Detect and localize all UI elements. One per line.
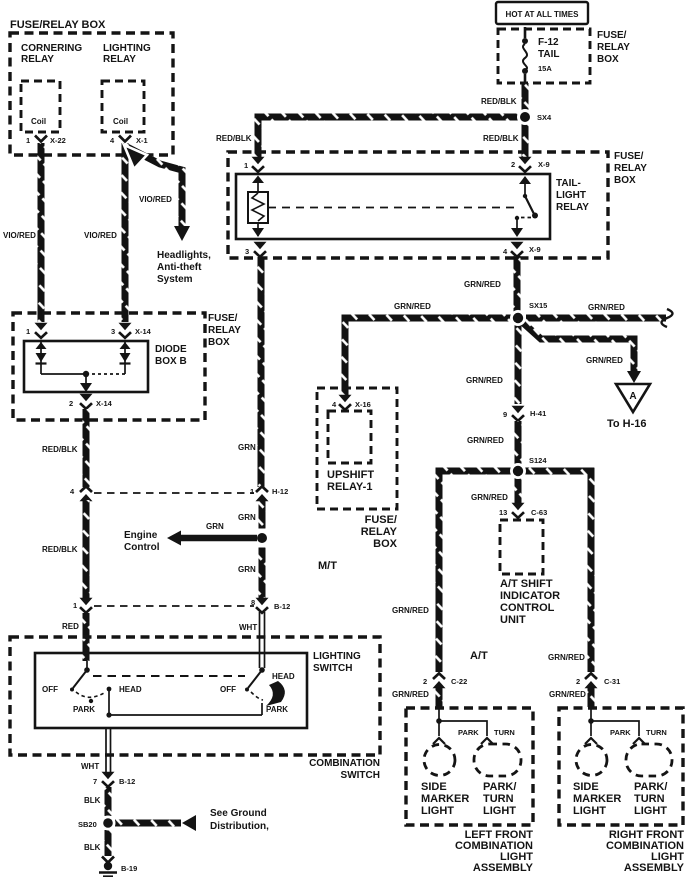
svg-text:GRN/RED: GRN/RED: [392, 606, 429, 615]
left front combination light assembly dashed box: [406, 708, 533, 825]
wire GRN/RED from S124 right to C-31: [524, 471, 591, 672]
connector A (to H-16): [616, 384, 650, 412]
wire GRN/RED from SX15 to upshift relay-1: [345, 318, 511, 398]
wire RED/BLK from fuse to SX4: [522, 83, 529, 111]
park/turn light (right): [626, 744, 672, 776]
lamp terminals (right assembly): [585, 738, 597, 744]
wire RED/BLK from SX4 to tail-light relay pin 2: [522, 124, 529, 158]
svg-text:C-22: C-22: [451, 677, 467, 686]
wire GRN from relay pin 3 to H-12 pin 1: [258, 257, 265, 487]
svg-text:7: 7: [93, 777, 97, 786]
svg-text:RED/BLK: RED/BLK: [42, 545, 78, 554]
connector B-12 pin 8: [256, 598, 269, 613]
relay switch: [519, 176, 531, 184]
svg-text:RELAY: RELAY: [614, 163, 647, 174]
svg-text:To H-16: To H-16: [607, 418, 647, 430]
fuse/relay box dashed enclosure (tail-light relay): [228, 152, 608, 258]
wire BLK from SB20 to ground G B-19: [105, 830, 112, 856]
svg-text:H-12: H-12: [272, 487, 288, 496]
right switch HEAD position arrow (thick): [266, 681, 285, 706]
svg-text:UNIT: UNIT: [500, 614, 526, 626]
left switch travel arc through PARK: [76, 692, 104, 697]
wire GRN/RED from relay pin 4 to SX15: [514, 256, 521, 312]
connector H-12 pin 1: [256, 486, 269, 501]
arrow down to pin 2: [85, 374, 87, 385]
switch output bus: [109, 689, 262, 715]
svg-text:X-16: X-16: [355, 400, 371, 409]
svg-text:3: 3: [245, 247, 249, 256]
svg-text:F-12: F-12: [538, 37, 559, 48]
svg-text:ASSEMBLY: ASSEMBLY: [473, 862, 534, 874]
wire GRN from tap to B-12 pin 8: [259, 545, 266, 600]
svg-text:SX15: SX15: [529, 301, 547, 310]
svg-text:DIODE: DIODE: [155, 344, 187, 355]
svg-text:SWITCH: SWITCH: [341, 770, 380, 781]
wire GRN/RED from C-31 into right assembly: [588, 687, 595, 707]
wire VIO/RED branch to headlights / anti-theft: [127, 147, 182, 227]
svg-text:BLK: BLK: [84, 796, 101, 805]
fuse/relay box dashed enclosure (cornering/lighting relays): [10, 33, 173, 155]
svg-text:A/T: A/T: [470, 650, 488, 662]
svg-text:Headlights,: Headlights,: [157, 250, 211, 261]
svg-text:RED/BLK: RED/BLK: [481, 97, 517, 106]
svg-text:TURN: TURN: [634, 793, 665, 805]
svg-text:GRN: GRN: [238, 443, 256, 452]
connector C-31 pin 2: [585, 673, 598, 688]
connector H-41 pin 9: [512, 406, 525, 421]
svg-text:LIGHT: LIGHT: [556, 190, 586, 201]
svg-text:B-19: B-19: [121, 864, 137, 873]
svg-text:B-12: B-12: [274, 602, 290, 611]
svg-text:System: System: [157, 274, 193, 285]
svg-text:TAIL-: TAIL-: [556, 178, 581, 189]
svg-text:LIGHT: LIGHT: [421, 805, 454, 817]
svg-text:2: 2: [69, 399, 73, 408]
a/t shift indicator control unit dashed box: [500, 520, 543, 574]
left assembly internal wiring: [438, 708, 440, 736]
fuse/relay box dashed enclosure (upshift relay-1): [317, 388, 397, 509]
svg-text:RELAY-1: RELAY-1: [327, 481, 372, 493]
svg-text:LIGHTING: LIGHTING: [103, 43, 151, 54]
svg-text:FUSE/: FUSE/: [365, 514, 397, 526]
wire GRN/RED from S124 left to C-22: [439, 471, 512, 672]
wire RED into lighting switch: [83, 613, 90, 661]
diode D2 (right): [124, 341, 126, 374]
fuse box dashed enclosure: [498, 29, 590, 83]
svg-text:VIO/RED: VIO/RED: [84, 231, 117, 240]
svg-text:LIGHT: LIGHT: [634, 805, 667, 817]
svg-text:RELAY: RELAY: [597, 42, 630, 53]
connector X-16 pin 4 (upshift relay): [339, 395, 352, 410]
svg-text:SIDE: SIDE: [421, 781, 447, 793]
svg-text:LIGHT: LIGHT: [573, 805, 606, 817]
svg-text:BOX: BOX: [373, 538, 398, 550]
svg-text:1: 1: [26, 327, 30, 336]
svg-text:See Ground: See Ground: [210, 808, 267, 819]
svg-text:RED/BLK: RED/BLK: [483, 134, 519, 143]
svg-text:PARK/: PARK/: [483, 781, 516, 793]
svg-text:TURN: TURN: [646, 728, 667, 737]
diode output bus: [41, 373, 86, 375]
svg-text:BOX: BOX: [208, 337, 230, 348]
connector B-12 pin 7: [102, 772, 115, 787]
svg-text:BOX: BOX: [597, 54, 619, 65]
svg-text:15A: 15A: [538, 64, 552, 73]
svg-text:GRN/RED: GRN/RED: [392, 690, 429, 699]
svg-text:TURN: TURN: [483, 793, 514, 805]
cornering relay coil box: [21, 81, 60, 132]
svg-text:M/T: M/T: [318, 560, 337, 572]
svg-text:X-14: X-14: [96, 399, 113, 408]
svg-text:C-31: C-31: [604, 677, 620, 686]
wire WHT (double line) from switch output to B-12 pin 7: [106, 728, 111, 772]
wire BLK from B-12 pin 7 to SB20: [105, 787, 112, 816]
right switch pole: [259, 667, 265, 673]
pin 1 (diode box): [35, 323, 48, 338]
junction SX15: [510, 310, 526, 326]
fuse F-12 TAIL 15A: [524, 27, 527, 38]
svg-text:Coil: Coil: [113, 117, 128, 126]
svg-text:Control: Control: [124, 542, 160, 553]
right assembly internal wiring: [590, 708, 592, 736]
continuation squiggle: [662, 309, 673, 327]
svg-text:HEAD: HEAD: [272, 672, 295, 681]
svg-text:S124: S124: [529, 456, 547, 465]
arrowhead into connector A: [627, 371, 641, 383]
svg-text:C-63: C-63: [531, 508, 547, 517]
svg-text:CONTROL: CONTROL: [500, 602, 555, 614]
svg-text:GRN/RED: GRN/RED: [549, 690, 586, 699]
svg-text:COMBINATION: COMBINATION: [309, 758, 380, 769]
svg-text:GRN/RED: GRN/RED: [588, 303, 625, 312]
svg-text:HEAD: HEAD: [119, 685, 142, 694]
wire RED/BLK branch from SX4 to tail-light relay pin 1: [258, 117, 518, 158]
svg-text:Distribution,: Distribution,: [210, 821, 269, 832]
wire GRN/RED from S124 to C-63: [515, 478, 522, 504]
svg-text:FUSE/: FUSE/: [614, 151, 644, 162]
svg-text:X-9: X-9: [529, 245, 541, 254]
svg-text:A/T SHIFT: A/T SHIFT: [500, 578, 553, 590]
svg-text:WHT: WHT: [81, 762, 99, 771]
arrowhead (to ground distribution): [182, 815, 196, 831]
left switch blade to OFF: [73, 670, 87, 688]
pin 4 X-9 (relay switch, bottom): [511, 242, 524, 257]
relay coil: [252, 176, 264, 184]
coil-switch mechanical dashed link: [268, 207, 516, 209]
svg-text:VIO/RED: VIO/RED: [139, 195, 172, 204]
svg-text:SIDE: SIDE: [573, 781, 599, 793]
svg-text:2: 2: [511, 160, 515, 169]
tail-light relay solid box: [236, 174, 550, 239]
svg-text:MARKER: MARKER: [421, 793, 469, 805]
svg-text:1: 1: [26, 136, 30, 145]
side marker light (left): [424, 745, 455, 776]
side marker light (right): [576, 745, 607, 776]
junction S124: [510, 463, 526, 479]
svg-text:RELAY: RELAY: [208, 325, 241, 336]
svg-text:9: 9: [503, 410, 507, 419]
svg-text:RED/BLK: RED/BLK: [42, 445, 78, 454]
svg-text:GRN: GRN: [238, 565, 256, 574]
svg-text:FUSE/: FUSE/: [208, 313, 238, 324]
svg-text:SB20: SB20: [78, 820, 97, 829]
pin 1 (relay coil, top): [252, 157, 265, 172]
svg-text:GRN/RED: GRN/RED: [471, 493, 508, 502]
svg-text:Coil: Coil: [31, 117, 46, 126]
svg-text:OFF: OFF: [42, 685, 58, 694]
diode box B solid box: [24, 341, 148, 392]
wire GRN/RED from C-22 into left assembly: [436, 687, 443, 707]
dashed link H-12 connector: [94, 492, 254, 494]
svg-text:TURN: TURN: [494, 728, 515, 737]
svg-text:PARK: PARK: [610, 728, 631, 737]
svg-text:PARK: PARK: [266, 705, 288, 714]
svg-text:GRN/RED: GRN/RED: [394, 302, 431, 311]
lighting relay coil box: [102, 81, 144, 132]
svg-text:WHT: WHT: [239, 623, 257, 632]
wire to ground distribution: [115, 820, 181, 827]
svg-text:8: 8: [251, 598, 255, 607]
svg-text:BLK: BLK: [84, 843, 101, 852]
svg-text:GRN: GRN: [238, 513, 256, 522]
svg-text:X-14: X-14: [135, 327, 152, 336]
svg-text:1: 1: [73, 601, 77, 610]
pin 1 X-22 (cornering relay coil): [35, 136, 47, 142]
pin 3 (relay coil, bottom): [254, 242, 267, 257]
arrowhead down to headlights system: [174, 226, 190, 241]
svg-text:GRN/RED: GRN/RED: [586, 356, 623, 365]
svg-text:RELAY: RELAY: [361, 526, 398, 538]
svg-text:RELAY: RELAY: [21, 54, 54, 65]
junction (engine control tap): [257, 529, 267, 548]
svg-text:RELAY: RELAY: [103, 54, 136, 65]
svg-text:UPSHIFT: UPSHIFT: [327, 469, 374, 481]
svg-text:GRN/RED: GRN/RED: [467, 436, 504, 445]
svg-text:H-41: H-41: [530, 409, 546, 418]
svg-text:PARK/: PARK/: [634, 781, 667, 793]
pin 2 X-14 (diode box): [80, 394, 93, 409]
svg-text:FUSE/: FUSE/: [597, 30, 627, 41]
svg-text:B-12: B-12: [119, 777, 135, 786]
upshift relay-1 inner dashed box: [328, 411, 371, 463]
wire GRN/RED from H-41 to S124: [515, 421, 522, 464]
svg-text:HOT AT ALL TIMES: HOT AT ALL TIMES: [506, 10, 580, 19]
junction (diode outputs): [83, 371, 89, 377]
svg-text:BOX: BOX: [614, 175, 636, 186]
svg-text:VIO/RED: VIO/RED: [3, 231, 36, 240]
svg-text:FUSE/RELAY BOX: FUSE/RELAY BOX: [10, 19, 106, 31]
svg-text:SX4: SX4: [537, 113, 552, 122]
pin 2 X-9 (relay switch, top): [519, 157, 532, 172]
right front combination light assembly dashed box: [559, 708, 683, 825]
svg-text:OFF: OFF: [220, 685, 236, 694]
svg-text:RED: RED: [62, 622, 79, 631]
svg-text:2: 2: [576, 677, 580, 686]
junction SB20: [101, 816, 116, 831]
engine control arrow: [167, 531, 181, 546]
svg-text:BOX B: BOX B: [155, 356, 187, 367]
pin 4 X-1 (lighting relay coil): [119, 136, 131, 142]
svg-text:3: 3: [111, 327, 115, 336]
svg-text:Anti-theft: Anti-theft: [157, 262, 202, 273]
svg-text:GRN: GRN: [206, 522, 224, 531]
svg-text:1: 1: [250, 487, 254, 496]
wire WHT (double line) from B-12 pin 8 into switch: [260, 612, 265, 668]
svg-text:TAIL: TAIL: [538, 49, 559, 60]
connector C-22 pin 2: [433, 673, 446, 688]
right switch travel arc: [251, 692, 263, 700]
engine control wire GRN: [181, 535, 257, 542]
svg-text:ASSEMBLY: ASSEMBLY: [624, 862, 685, 874]
right switch blade to OFF: [248, 670, 262, 688]
wire VIO/RED from lighting relay pin 4 down to diode box pin 3: [122, 143, 129, 322]
lamp terminals (left assembly): [433, 738, 445, 744]
svg-text:GRN/RED: GRN/RED: [548, 653, 585, 662]
svg-text:2: 2: [423, 677, 427, 686]
connector H-12 pin 4 (left): [80, 486, 93, 501]
wire RED/BLK from H-12 to connector B-12 pin 1: [83, 500, 90, 600]
connector B-12 pin 1 (left): [80, 598, 93, 613]
lighting switch solid box: [35, 653, 307, 728]
connector C-63 pin 13: [512, 503, 525, 518]
svg-text:GRN/RED: GRN/RED: [464, 280, 501, 289]
svg-text:RELAY: RELAY: [556, 202, 589, 213]
combination switch dashed enclosure: [10, 637, 380, 755]
svg-text:RED/BLK: RED/BLK: [216, 134, 252, 143]
svg-text:INDICATOR: INDICATOR: [500, 590, 560, 602]
wire RED/BLK from diode box pin 2 down to connector H-12 pin 4: [83, 409, 90, 487]
wire VIO/RED from cornering relay pin 1 down to diode box pin 1: [38, 143, 45, 322]
wire GRN/RED branch from SX15 to connector A (to H-16): [520, 320, 634, 372]
svg-text:PARK: PARK: [458, 728, 479, 737]
svg-text:X-1: X-1: [136, 136, 148, 145]
wire GRN from H-12 to engine control tap: [259, 500, 266, 531]
hot at all times box: [496, 2, 588, 24]
svg-text:X-22: X-22: [50, 136, 66, 145]
svg-text:MARKER: MARKER: [573, 793, 621, 805]
svg-text:LIGHT: LIGHT: [483, 805, 516, 817]
svg-text:Engine: Engine: [124, 530, 158, 541]
svg-text:CORNERING: CORNERING: [21, 43, 82, 54]
wire GRN/RED from SX15 to right (continues): [526, 315, 666, 322]
dashed link B-12 connector: [94, 605, 254, 607]
park/turn light (left): [474, 744, 521, 776]
svg-text:A: A: [629, 391, 636, 402]
diode D1 (left): [40, 341, 42, 374]
fuse/relay box dashed enclosure (diode box B): [13, 313, 205, 420]
svg-text:SWITCH: SWITCH: [313, 663, 352, 674]
svg-text:GRN/RED: GRN/RED: [466, 376, 503, 385]
ganged-switch dashed link: [93, 675, 245, 677]
left switch HEAD contact: [107, 687, 112, 692]
svg-text:X-9: X-9: [538, 160, 550, 169]
svg-text:PARK: PARK: [73, 705, 95, 714]
arrowhead up-left at lighting relay pin 4: [124, 145, 147, 169]
pin 3 X-14 (diode box): [119, 323, 132, 338]
junction SX4: [517, 109, 533, 125]
svg-text:13: 13: [499, 508, 507, 517]
svg-text:LIGHTING: LIGHTING: [313, 651, 361, 662]
ground B-19: [102, 857, 114, 863]
wire GRN/RED from SX15 down to H-41: [515, 325, 522, 404]
svg-text:1: 1: [244, 161, 248, 170]
left switch pole: [86, 661, 88, 670]
